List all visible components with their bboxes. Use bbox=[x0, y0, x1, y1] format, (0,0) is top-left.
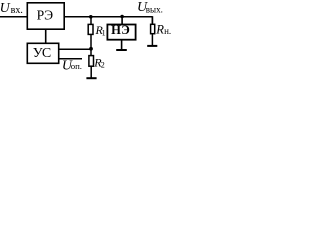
svg-text:вх.: вх. bbox=[11, 5, 23, 16]
svg-text:1: 1 bbox=[102, 28, 106, 37]
svg-text:оп.: оп. bbox=[71, 61, 82, 71]
svg-text:U: U bbox=[0, 1, 11, 16]
svg-text:2: 2 bbox=[101, 61, 105, 70]
svg-text:НЭ: НЭ bbox=[111, 23, 130, 37]
svg-text:РЭ: РЭ bbox=[37, 8, 54, 23]
svg-text:R: R bbox=[155, 23, 164, 37]
svg-text:н.: н. bbox=[164, 26, 171, 36]
svg-text:вых.: вых. bbox=[146, 5, 163, 15]
svg-text:УС: УС bbox=[33, 46, 51, 61]
